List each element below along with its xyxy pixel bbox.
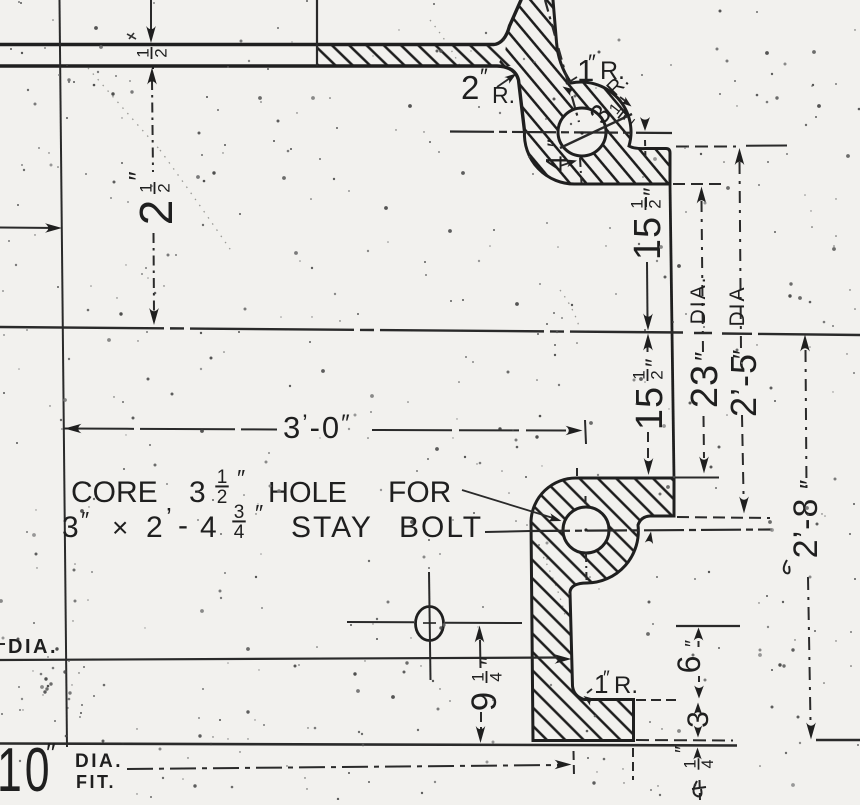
- svg-text:3: 3: [62, 511, 79, 544]
- svg-text:″: ″: [123, 171, 153, 180]
- svg-text:″: ″: [588, 50, 596, 75]
- svg-text:CORE: CORE: [71, 476, 158, 509]
- svg-text:″: ″: [476, 656, 503, 665]
- svg-text:″: ″: [237, 465, 245, 491]
- svg-text:15: 15: [629, 386, 671, 430]
- svg-text:BOLT: BOLT: [399, 511, 483, 544]
- svg-text:″: ″: [255, 500, 263, 526]
- svg-text:×: ×: [112, 512, 128, 543]
- svg-text:2: 2: [217, 487, 228, 508]
- svg-text:4: 4: [487, 672, 506, 681]
- svg-text:1: 1: [217, 467, 228, 488]
- svg-text:9: 9: [465, 691, 504, 711]
- svg-text:4: 4: [541, 154, 573, 171]
- svg-text:1: 1: [137, 183, 156, 192]
- svg-text:1: 1: [682, 759, 700, 768]
- svg-text:″: ″: [543, 139, 568, 147]
- svg-text:DIA.: DIA.: [75, 751, 123, 772]
- svg-text:″: ″: [480, 64, 488, 89]
- svg-text:2: 2: [648, 370, 667, 379]
- svg-text:1: 1: [628, 199, 647, 208]
- svg-text:1: 1: [134, 48, 153, 57]
- svg-text:3: 3: [682, 710, 715, 728]
- svg-text:23: 23: [684, 364, 726, 408]
- svg-text:″: ″: [682, 640, 704, 647]
- svg-text:2: 2: [130, 199, 182, 226]
- svg-text:1: 1: [630, 370, 649, 379]
- svg-text:FIT.: FIT.: [76, 772, 116, 792]
- svg-text:DIA.: DIA.: [687, 276, 710, 325]
- svg-text:HOLE: HOLE: [268, 477, 347, 509]
- svg-text:FOR: FOR: [388, 476, 451, 509]
- svg-text:STAY: STAY: [291, 511, 373, 544]
- svg-text:’: ’: [166, 502, 172, 532]
- svg-text:6: 6: [671, 655, 707, 674]
- svg-text:2: 2: [155, 183, 174, 192]
- svg-text:10: 10: [0, 736, 52, 800]
- svg-text:15: 15: [627, 216, 669, 260]
- svg-text:2: 2: [146, 511, 163, 544]
- svg-text:-: -: [178, 509, 188, 542]
- svg-text:4: 4: [200, 511, 217, 544]
- svg-text:3: 3: [234, 502, 245, 523]
- svg-text:″: ″: [672, 746, 694, 753]
- svg-text:″: ″: [689, 352, 719, 361]
- svg-text:″: ″: [727, 350, 757, 359]
- svg-text:″: ″: [603, 668, 610, 689]
- svg-text:″: ″: [794, 480, 824, 489]
- svg-text:2: 2: [461, 69, 479, 106]
- svg-text:2: 2: [646, 199, 665, 208]
- svg-text:DIA.: DIA.: [8, 636, 58, 658]
- svg-text:4: 4: [234, 522, 245, 543]
- svg-text:R.: R.: [492, 82, 515, 108]
- svg-text:2: 2: [152, 48, 171, 57]
- svg-text:R.: R.: [614, 672, 638, 699]
- svg-text:4: 4: [699, 759, 717, 768]
- svg-text:″: ″: [639, 187, 666, 196]
- svg-text:2’-5: 2’-5: [723, 353, 764, 417]
- svg-text:DIA: DIA: [726, 285, 749, 326]
- svg-text:″: ″: [641, 358, 668, 367]
- svg-text:″: ″: [46, 737, 56, 768]
- svg-text:3: 3: [189, 476, 206, 509]
- svg-text:1: 1: [469, 672, 488, 681]
